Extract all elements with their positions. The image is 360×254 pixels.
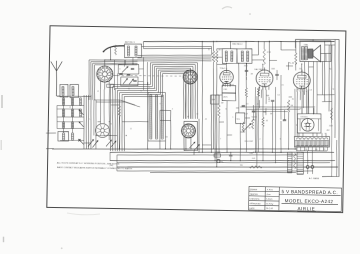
more junctions bbox=[226, 63, 227, 64]
svg-text:MID REJ 2: MID REJ 2 bbox=[232, 44, 243, 46]
svg-text:CHECKED: CHECKED bbox=[250, 199, 260, 201]
resistor R7 bbox=[257, 87, 260, 96]
resistor R5 bbox=[218, 105, 221, 117]
resistor R11 bbox=[249, 166, 262, 169]
gang C2 drops bbox=[185, 84, 186, 119]
resistor R6 bbox=[262, 117, 265, 126]
svg-text:35: 35 bbox=[110, 123, 112, 125]
oscillator coil bbox=[160, 95, 162, 139]
svg-text:.05: .05 bbox=[265, 120, 267, 122]
output transformer winding b bbox=[305, 46, 308, 59]
wavechange switch contact bbox=[79, 110, 84, 115]
AF drops bbox=[218, 95, 220, 105]
svg-text:0.1: 0.1 bbox=[278, 94, 280, 96]
rectifier valve V4 bbox=[301, 118, 314, 131]
valve V2 detector bbox=[256, 70, 273, 87]
chassis bus 1 bbox=[52, 145, 296, 154]
tuning gang C1 (rotor) bbox=[97, 66, 113, 82]
capacitor C9 bbox=[283, 119, 286, 121]
switch cross bbox=[78, 139, 80, 141]
coupling coil box bbox=[160, 110, 171, 120]
wavechange switch contact bbox=[79, 139, 84, 144]
wire aerial drop bbox=[109, 47, 112, 60]
fuse F1 bbox=[214, 154, 221, 157]
svg-text:300: 300 bbox=[165, 137, 168, 139]
svg-text:DRAWN: DRAWN bbox=[250, 188, 258, 191]
svg-text:.1: .1 bbox=[232, 117, 233, 119]
valve V1 pin drops bbox=[223, 84, 225, 86]
svg-text:.1: .1 bbox=[284, 107, 285, 109]
dropper resistor bbox=[293, 153, 296, 169]
AF bus links bbox=[240, 106, 315, 109]
HT minus bus bbox=[110, 157, 335, 165]
svg-text:4D2: 4D2 bbox=[326, 130, 329, 132]
svg-text:3: 3 bbox=[172, 108, 173, 110]
transformer secondary row3 bbox=[297, 145, 300, 147]
resistor R2 bbox=[215, 51, 218, 62]
transformer taps bbox=[296, 147, 298, 151]
svg-text:0.05: 0.05 bbox=[250, 153, 253, 155]
plug lead tails bbox=[307, 168, 309, 174]
capacitor C8 bbox=[271, 99, 274, 101]
svg-text:VOL: VOL bbox=[236, 119, 239, 121]
svg-text:.02: .02 bbox=[268, 80, 270, 82]
svg-text:30: 30 bbox=[196, 114, 198, 116]
IF transformer box 2 bbox=[237, 49, 253, 64]
coil L5 bbox=[61, 122, 63, 129]
chassis bus 2 bbox=[110, 148, 334, 156]
resistor R1 bbox=[212, 51, 215, 62]
svg-text:.0001: .0001 bbox=[244, 66, 248, 68]
svg-text:12: 12 bbox=[130, 129, 132, 131]
transformer feeds bbox=[298, 133, 300, 137]
coil L6 bbox=[70, 98, 72, 106]
coil L8 bbox=[70, 122, 72, 129]
capacitor C10 bbox=[229, 154, 232, 156]
svg-text:7: 7 bbox=[220, 139, 221, 141]
power unit enclosure bbox=[293, 39, 341, 177]
border frame bbox=[47, 26, 346, 213]
top bus wires bbox=[138, 54, 212, 57]
speaker cone bbox=[313, 45, 321, 62]
svg-text:AIRLIE: AIRLIE bbox=[297, 206, 315, 211]
volume arrow bbox=[243, 123, 251, 131]
resistor R3 bbox=[263, 49, 266, 64]
transformer primary windings bbox=[296, 138, 299, 140]
bus 6 bbox=[117, 163, 338, 171]
oscillator coil bbox=[149, 95, 151, 139]
resistor R9 bbox=[330, 108, 332, 120]
aerial down-lead curve bbox=[103, 45, 124, 51]
svg-text:TRACED: TRACED bbox=[250, 193, 259, 196]
svg-text:T2 A.C.: T2 A.C. bbox=[219, 67, 226, 70]
rejector coil b bbox=[134, 46, 136, 56]
svg-text:T.E.King: T.E.King bbox=[265, 203, 274, 205]
gang C1 trimmer caps extra bbox=[119, 72, 122, 74]
svg-text:.05: .05 bbox=[204, 119, 206, 121]
right bus connectors bbox=[317, 93, 335, 96]
rectifier internals bbox=[304, 119, 311, 130]
smoothing can 1 bbox=[287, 152, 292, 173]
coil box L9 bbox=[58, 131, 69, 141]
svg-text:MODEL EKCO-A242: MODEL EKCO-A242 bbox=[285, 198, 334, 204]
valve V2 pin drops bbox=[257, 89, 259, 152]
svg-text:50: 50 bbox=[225, 109, 227, 111]
svg-text:250: 250 bbox=[323, 149, 326, 151]
mid vertical wires bbox=[201, 63, 204, 153]
svg-text:2MF: 2MF bbox=[212, 99, 215, 101]
valve base pins bbox=[97, 125, 109, 137]
IFT1 coil a bbox=[224, 51, 226, 62]
coil column wires bbox=[63, 97, 64, 133]
voltage tap bus bbox=[296, 150, 327, 151]
wire gang1 top rail bbox=[105, 59, 138, 60]
svg-text:ANT REJ 1: ANT REJ 1 bbox=[125, 41, 136, 44]
svg-text:U31 4D1: U31 4D1 bbox=[300, 117, 307, 119]
title block bbox=[249, 186, 342, 211]
svg-text:4K7: 4K7 bbox=[219, 49, 222, 51]
svg-text:50,000: 50,000 bbox=[252, 116, 257, 118]
coil L12 bbox=[78, 109, 80, 117]
fan-out wires below gang C1 bbox=[94, 100, 135, 105]
chassis bus 3 bbox=[117, 152, 296, 158]
svg-text:50: 50 bbox=[249, 127, 251, 129]
switch arrows pair B bbox=[106, 140, 112, 147]
coil L10 bbox=[70, 133, 72, 140]
output transformer winding a bbox=[301, 46, 304, 59]
mains transformer box bbox=[294, 136, 329, 148]
svg-text:5 V BANDSPREAD A.C.: 5 V BANDSPREAD A.C. bbox=[281, 189, 338, 195]
resistor R10 bbox=[118, 106, 121, 117]
resistor R4 bbox=[294, 53, 297, 64]
svg-text:.01: .01 bbox=[256, 103, 258, 105]
trimmer box 1 bbox=[118, 64, 139, 74]
bus left stubs bbox=[109, 152, 111, 160]
aerial coil box L2 bbox=[70, 84, 79, 97]
svg-text:T.BAL: T.BAL bbox=[304, 43, 309, 46]
resistor R15 bbox=[251, 119, 253, 129]
coupling cap C6 bbox=[275, 73, 278, 75]
gang C1 label box bbox=[107, 84, 114, 87]
tuning gang C2 (rotor) bbox=[183, 70, 197, 84]
svg-text:T: T bbox=[80, 99, 81, 101]
coil L3 bbox=[61, 98, 63, 106]
dashed gang link bbox=[113, 75, 181, 77]
coil L7 bbox=[70, 109, 72, 117]
left drop wires bbox=[100, 89, 101, 123]
svg-text:8µ: 8µ bbox=[329, 68, 331, 70]
svg-text:230: 230 bbox=[315, 149, 318, 151]
gang C1 top lead bbox=[104, 60, 106, 66]
resistor R14 bbox=[242, 122, 244, 132]
svg-text:P.L.33: P.L.33 bbox=[289, 63, 294, 65]
smoothing can 2 bbox=[297, 152, 304, 174]
IF transformer box 1 bbox=[222, 49, 237, 64]
rectifier top leads bbox=[301, 108, 303, 114]
svg-text:25: 25 bbox=[220, 74, 222, 76]
svg-text:210: 210 bbox=[305, 149, 308, 151]
bus 5 bbox=[117, 159, 330, 167]
svg-text:A.C. MAINS: A.C. MAINS bbox=[309, 177, 320, 180]
trimmer wires bbox=[114, 60, 115, 90]
rejector coil a bbox=[126, 46, 128, 56]
wire antenna to coils bbox=[56, 95, 60, 97]
HT risers bbox=[142, 42, 144, 45]
svg-text:2: 2 bbox=[260, 139, 261, 141]
transformer winding hatch bbox=[295, 141, 297, 146]
svg-text:N.West: N.West bbox=[266, 188, 274, 191]
trimmer box 2 bbox=[121, 77, 139, 86]
mains plug pins bbox=[306, 166, 309, 169]
IFT2 coil a bbox=[240, 51, 242, 62]
right vertical extra bbox=[336, 140, 337, 177]
coil row links bbox=[57, 108, 81, 111]
pilot lamp P.L. bbox=[217, 159, 220, 162]
speaker field coil link bbox=[320, 52, 330, 54]
svg-text:S.Hash: S.Hash bbox=[266, 199, 272, 201]
svg-text:VOL CONT: VOL CONT bbox=[244, 141, 253, 143]
valve V1 IF amp bbox=[220, 70, 234, 84]
svg-text:Esm: Esm bbox=[266, 194, 271, 196]
rectifier box bbox=[297, 113, 321, 133]
bus 7 bbox=[117, 167, 313, 174]
speaker magnet bbox=[308, 49, 313, 58]
svg-text:0.5: 0.5 bbox=[281, 85, 283, 87]
oscillator coil box bbox=[147, 92, 166, 141]
speaker drops bbox=[304, 62, 305, 95]
capacitor C11 bbox=[252, 110, 255, 112]
aerial coil box L1 bbox=[60, 84, 68, 97]
svg-text:90: 90 bbox=[297, 89, 299, 91]
svg-text:80: 80 bbox=[128, 88, 130, 90]
capacitor C7 bbox=[242, 105, 245, 107]
right bus wires bbox=[324, 52, 326, 102]
wavechange wafer S1 bbox=[181, 124, 195, 138]
svg-text:L: L bbox=[89, 118, 90, 120]
svg-text:0.1MF: 0.1MF bbox=[269, 97, 271, 102]
plug leads bbox=[306, 151, 309, 166]
transformer secondary bbox=[295, 140, 329, 141]
svg-text:S: S bbox=[140, 91, 141, 93]
svg-text:P: P bbox=[155, 88, 156, 90]
resistor R13 bbox=[114, 45, 116, 55]
junctions HT bbox=[202, 41, 203, 42]
antenna aerial symbol bbox=[51, 61, 57, 71]
svg-text:APPROVED: APPROVED bbox=[249, 202, 261, 205]
gang C1 leads bbox=[104, 82, 106, 89]
bus junction dots bbox=[147, 148, 148, 149]
condenser block box bbox=[210, 95, 219, 104]
wafer arrows bbox=[189, 142, 195, 148]
volume box bbox=[236, 113, 245, 124]
svg-text:4µ: 4µ bbox=[332, 89, 334, 91]
rail risers right bbox=[210, 46, 212, 55]
HT supply rail bbox=[143, 38, 334, 45]
valve V3 pin drops bbox=[296, 91, 298, 136]
coil L11 bbox=[78, 98, 80, 106]
svg-text:6: 6 bbox=[280, 138, 281, 140]
IFT2 coil b bbox=[245, 51, 247, 62]
resistor R8 bbox=[287, 100, 290, 112]
svg-text:4.7M: 4.7M bbox=[267, 52, 271, 54]
earth tick bbox=[46, 132, 56, 134]
coil L9 bbox=[61, 133, 63, 140]
svg-text:330: 330 bbox=[240, 165, 243, 167]
svg-text:T1: T1 bbox=[149, 88, 151, 90]
wavechange switch contact bbox=[79, 122, 84, 127]
switch bus wires bbox=[83, 95, 85, 149]
bandspread comb wiring bbox=[109, 61, 198, 152]
wavechange switch box bbox=[183, 121, 198, 150]
gang C1 nest wires bbox=[88, 59, 137, 101]
aerial terminal dot bbox=[103, 51, 105, 53]
svg-text:15: 15 bbox=[208, 49, 210, 51]
speaker box bbox=[300, 40, 332, 62]
rejector box ANT REJ bbox=[124, 44, 141, 58]
coil L1 bbox=[61, 87, 63, 96]
svg-text:8: 8 bbox=[119, 69, 120, 71]
IFT1 coil b bbox=[230, 51, 232, 62]
svg-text:250: 250 bbox=[299, 69, 302, 71]
svg-text:1: 1 bbox=[240, 138, 241, 140]
coil L4 bbox=[61, 109, 63, 117]
valve base circle bbox=[95, 124, 109, 138]
oscillator coil bbox=[155, 95, 157, 139]
wire rejector rails bbox=[143, 45, 211, 48]
grid cap C5 bbox=[245, 69, 248, 71]
frame tick 2 bbox=[46, 148, 54, 150]
svg-text:S2: S2 bbox=[187, 117, 189, 119]
svg-text:0.3: 0.3 bbox=[310, 90, 312, 92]
resistor R12 bbox=[245, 88, 248, 97]
bus 8 bbox=[150, 170, 296, 175]
svg-text:.0005: .0005 bbox=[271, 68, 275, 70]
bias boxes bbox=[222, 85, 236, 93]
coil bank top connector bbox=[60, 96, 91, 97]
svg-text:0.05: 0.05 bbox=[252, 158, 255, 160]
wire rejector drop bbox=[132, 57, 134, 64]
switch arrows pair A bbox=[88, 139, 94, 146]
coil L2 bbox=[71, 86, 73, 95]
mid horizontal links bbox=[96, 134, 111, 137]
svg-text:28-2-36: 28-2-36 bbox=[266, 208, 274, 210]
svg-text:85: 85 bbox=[292, 98, 294, 100]
svg-text:DATE: DATE bbox=[249, 207, 255, 210]
valve grid links bbox=[212, 56, 223, 58]
valve V3 output bbox=[293, 72, 310, 89]
